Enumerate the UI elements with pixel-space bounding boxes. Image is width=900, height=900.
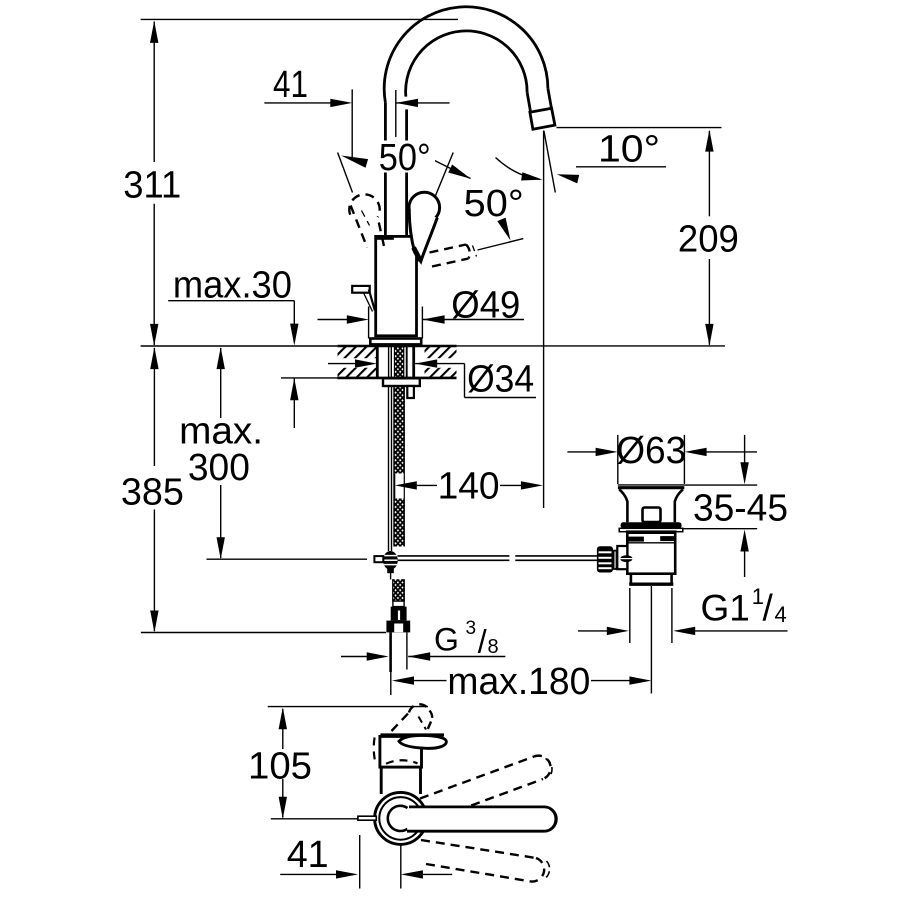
rod knurled joint [597,546,613,572]
dim G1-1/4 [578,630,608,632]
dim 385 bottom reference line [141,632,386,634]
svg-text:3: 3 [466,618,477,639]
hidden lever dashes in body [386,760,418,764]
dim 140 left extension tick [394,474,396,499]
top view neck [380,769,383,795]
dim O63 extension lines [617,435,619,484]
drain tailpiece [630,574,633,584]
faucet shank tube [376,345,379,379]
pop-up rod tube [388,386,390,551]
50deg right X lines [421,154,470,179]
dim 35-45 extension lines [684,484,757,486]
svg-text:385: 385 [121,471,184,513]
deck top line [141,345,338,347]
10deg leader [576,166,666,168]
hatch gap band for dim line [328,358,457,368]
rod ball pivot [620,555,632,562]
dim 35-45 [744,435,746,463]
dim 41 top [264,102,330,104]
svg-text:41: 41 [287,834,329,876]
dim O63 [567,451,596,453]
svg-text:Ø63: Ø63 [616,430,686,472]
hose plain section at 140 dim [393,474,395,499]
dim 385 [153,348,155,466]
top view upper reference line [268,706,428,708]
nut tab [407,386,414,398]
svg-text:140: 140 [438,465,500,507]
svg-text:G1: G1 [701,587,750,628]
drain collar [621,522,682,528]
rod end tab [374,556,383,562]
dim 311 top reference line [141,18,458,20]
spout riser [384,103,387,236]
tailpiece extension lines [629,588,631,643]
deck bottom line [281,377,338,379]
svg-text:209: 209 [678,219,739,261]
dim max.180 left extension [390,671,392,695]
deck cross-section hatch left [338,347,378,378]
dim 209 [708,131,710,216]
hose end fitting [393,601,404,607]
svg-text:311: 311 [123,165,181,207]
drain body [627,532,675,574]
lever blade (top view) [399,735,446,748]
dim 105 [282,709,284,749]
svg-text:8: 8 [488,636,499,658]
svg-text:105: 105 [248,746,312,788]
deck cross-section hatch right [425,347,457,378]
lever bar (top view) [407,807,556,831]
dim O49 [318,319,348,321]
dim max.180 [392,676,414,684]
top view spout body [380,736,422,767]
pop-up rod tab (top view) [358,816,376,820]
mounting nut [383,378,420,386]
pop-up rod [398,555,510,557]
svg-text:300: 300 [188,447,250,489]
svg-text:50°: 50° [464,183,524,225]
overflow tab [643,508,661,523]
svg-text:35-45: 35-45 [693,487,788,529]
text mask 50deg-1 [374,141,435,173]
threaded stud in deck [394,346,403,378]
spout outer arc [384,7,548,103]
svg-text:Ø34: Ø34 [467,358,534,400]
dim 140 [395,481,417,489]
dim 41 bottom [280,873,336,875]
spout inner arc [406,31,528,103]
drain neck [619,489,627,522]
10deg angle arc [496,158,541,180]
dashed lever rotated right [430,245,467,253]
faucet body [376,236,417,335]
50deg left angle line [338,153,353,193]
faucet base flange [370,339,421,345]
hose below knob [390,573,392,579]
svg-text:4: 4 [775,602,787,627]
spout tip vertical extension [543,131,545,509]
top view lever axis reference line [271,818,359,820]
svg-text:/: / [478,624,487,660]
dim O34 [328,363,355,365]
dashed arm upper (top view) [420,757,534,799]
dim 209 top reference line [557,127,722,129]
drain flange [618,484,685,486]
pop-up rod actuator at body [352,286,370,293]
dashed lever rotated left [349,194,379,217]
svg-text:max.180: max.180 [447,661,590,703]
dashed arm lower (top view) [421,840,536,858]
lever end black bar [374,235,394,240]
rod knob at hose [383,551,398,570]
svg-text:max.30: max.30 [173,265,292,307]
dim max.300 bottom reference line [207,558,368,560]
dim max.300 [220,348,222,418]
svg-text:Ø49: Ø49 [451,285,520,327]
svg-text:G: G [434,622,459,658]
aerator block [530,108,555,129]
supply hose braided upper [393,386,395,474]
dim 41 top extension lines [351,89,353,159]
hose end tube [389,632,392,672]
dim O49 extension lines [368,307,370,339]
dim max.30 leader [168,300,294,302]
solid lever [409,192,440,223]
svg-text:41: 41 [273,64,308,106]
svg-text:/: / [763,587,774,628]
dim 41 bottom extension lines [359,835,361,889]
50deg-2 angle line [478,239,524,250]
svg-text:max.: max. [179,410,263,452]
drain centerline [650,586,652,694]
dashed lever vertical position (top view) [392,713,410,732]
faucet base circle (top view) [375,792,427,844]
svg-text:50°: 50° [379,137,431,179]
gap for 41 dim line [403,97,414,110]
dim 311 [153,22,155,163]
svg-text:10°: 10° [598,128,660,170]
supply hose braided lower [394,499,404,547]
spout axis 10deg line [544,131,555,193]
dim G3/8 [341,656,368,658]
